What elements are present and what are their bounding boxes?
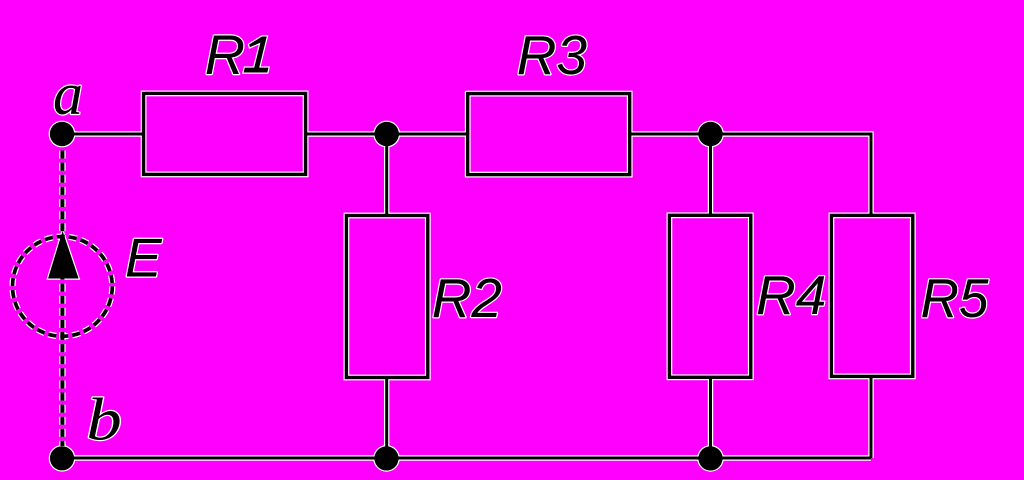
- svg-text:E: E: [125, 227, 163, 289]
- svg-text:R3: R3: [517, 24, 588, 86]
- svg-text:R5: R5: [921, 267, 989, 329]
- svg-text:R4: R4: [756, 264, 826, 326]
- svg-text:b: b: [86, 387, 121, 453]
- svg-text:a: a: [53, 61, 83, 127]
- svg-text:R2: R2: [432, 267, 502, 329]
- svg-text:R: R: [205, 23, 245, 86]
